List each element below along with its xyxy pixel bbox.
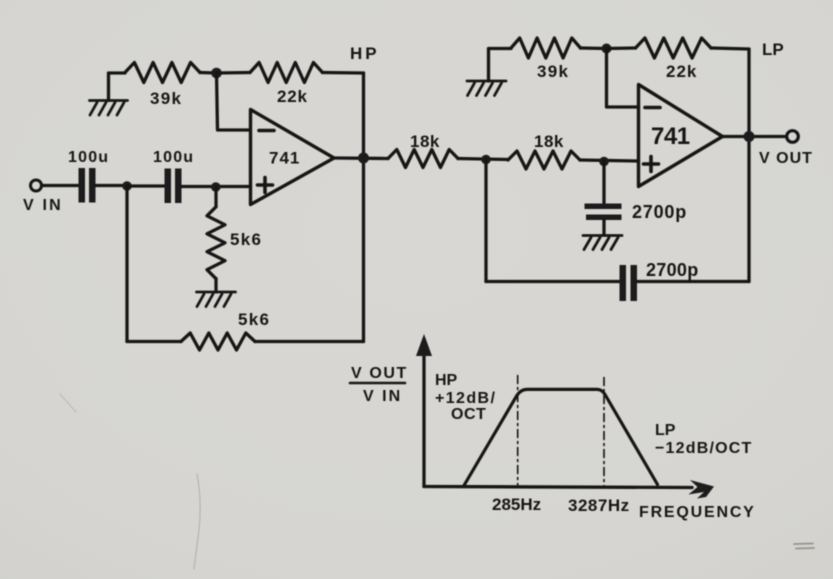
wire U1 output [334, 156, 388, 160]
node D junction (HP output) [358, 153, 369, 164]
label HP (graph) [435, 372, 458, 389]
wire bottom left segment [127, 340, 181, 343]
svg-text:3287Hz: 3287Hz [568, 496, 630, 515]
wire HP output vertical [362, 73, 365, 342]
resistor 22k HP [217, 63, 364, 83]
graph x-axis arrowhead [689, 480, 715, 499]
dashed marker 285Hz [517, 376, 519, 487]
node F junction [599, 157, 609, 167]
svg-text:+12dB/: +12dB/ [435, 390, 496, 407]
ground under C3 [583, 236, 622, 250]
graph x-axis [424, 487, 692, 488]
label FREQUENCY [639, 504, 756, 521]
resistor 39k HP [125, 63, 200, 83]
label 5k6 (feedback) [238, 310, 270, 329]
wire VIN to C1 [42, 184, 79, 187]
svg-text:5k6: 5k6 [230, 230, 262, 249]
capacitor C1 100u [79, 168, 96, 203]
label LP [762, 40, 784, 59]
svg-text:−12dB/OCT: −12dB/OCT [655, 440, 753, 457]
stray faint slash [60, 394, 76, 412]
wire node G to inverting input U2 [607, 49, 639, 108]
label 18k (first) [410, 132, 440, 151]
wire node F down to C3 [602, 162, 605, 204]
resistor 5k6 feedback [181, 333, 255, 350]
svg-text:HP: HP [435, 372, 458, 389]
node C junction (39k/22k HP) [211, 68, 222, 79]
svg-text:OCT: OCT [451, 406, 486, 423]
node A junction [122, 181, 132, 191]
wire bottom right segment [255, 340, 364, 343]
ground LP 39k [467, 81, 506, 96]
svg-text:LP: LP [655, 422, 676, 439]
graph y-axis arrowhead [416, 334, 432, 356]
label 741 (U2) [651, 123, 690, 150]
label -12dB/OCT [655, 440, 753, 457]
resistor 18k second [508, 151, 580, 169]
label OCT [451, 406, 486, 423]
label 100u (C1) [68, 149, 109, 166]
wire node E down to bottom LP feedback [484, 160, 487, 282]
op-amp U1 741 [251, 110, 335, 205]
svg-text:100u: 100u [68, 149, 109, 166]
label 5k6 (vertical resistor) [230, 230, 262, 249]
terminal V OUT [787, 131, 799, 143]
label HP [350, 44, 380, 63]
label 2700p (C3) [632, 202, 687, 222]
svg-text:V IN: V IN [363, 388, 402, 405]
node G junction (39k/22k LP) [602, 44, 612, 54]
label 22k HP [277, 87, 308, 106]
label 2700p (C4) [646, 260, 699, 280]
svg-text:V OUT: V OUT [351, 365, 408, 382]
label 39k LP [537, 62, 569, 81]
wire node C to inverting input [217, 73, 251, 130]
wire U2 output to V OUT [723, 135, 786, 138]
wire C4 to LP output vertical [637, 280, 749, 283]
svg-text:18k: 18k [534, 132, 564, 151]
resistor R 5k6 vertical [207, 187, 225, 292]
resistor 39k LP [511, 38, 581, 58]
stray mark equals bottom right [794, 544, 814, 549]
label 3287Hz [568, 496, 630, 515]
wire node A down to bottom feedback [125, 186, 128, 342]
wire node A to C2 [127, 184, 164, 187]
label 285Hz [492, 495, 541, 514]
graph y-axis [422, 349, 425, 487]
capacitor C2 100u [165, 169, 182, 204]
svg-text:100u: 100u [153, 149, 194, 166]
op-amp U2 741 [639, 85, 723, 187]
svg-text:HP: HP [350, 44, 380, 63]
node B junction [211, 182, 221, 192]
wire C3 to ground [602, 220, 605, 235]
ground under 5k6 [197, 292, 236, 307]
wire bottom to C4 [486, 280, 619, 283]
stray hairline scratch [194, 474, 200, 569]
plus sign U2 [644, 157, 659, 172]
svg-text:V IN: V IN [23, 197, 63, 214]
node E junction [481, 155, 491, 165]
wire 39k to node C [200, 71, 217, 75]
svg-text:V OUT: V OUT [759, 150, 813, 167]
svg-text:2700p: 2700p [632, 202, 687, 222]
svg-text:LP: LP [762, 40, 784, 59]
minus sign U2 [645, 106, 660, 110]
label +12dB/ [435, 390, 496, 407]
svg-text:22k: 22k [277, 87, 308, 106]
resistor 22k LP [607, 38, 750, 58]
terminal V IN [31, 180, 42, 191]
label 18k (second) [534, 132, 564, 151]
svg-text:18k: 18k [410, 132, 440, 151]
label 741 (U1) [269, 149, 300, 168]
wire C1 to node A [96, 184, 128, 187]
fraction bar [350, 382, 405, 385]
label 22k LP [666, 62, 697, 81]
wire LP output vertical [747, 49, 750, 282]
wire 39k to node G [581, 46, 607, 50]
wire 18k to node F and + input [580, 160, 639, 161]
wire 39k LP ground lead [489, 49, 512, 82]
minus sign U1 [259, 129, 274, 133]
svg-text:2700p: 2700p [646, 260, 699, 280]
svg-text:5k6: 5k6 [238, 310, 270, 329]
plus sign U1 [258, 178, 273, 193]
label V OUT [759, 150, 813, 167]
capacitor C3 2700p (to ground) [585, 204, 622, 221]
svg-text:39k: 39k [150, 89, 182, 108]
label 39k HP [150, 89, 182, 108]
response curve [463, 389, 657, 486]
wire C2 to node B and op-amp + input [182, 185, 251, 188]
dashed marker 3287Hz [603, 378, 605, 487]
svg-text:285Hz: 285Hz [492, 495, 541, 514]
svg-text:741: 741 [651, 123, 690, 150]
svg-text:39k: 39k [537, 62, 569, 81]
label fraction V IN [363, 388, 402, 405]
svg-text:22k: 22k [666, 62, 697, 81]
label V IN [23, 197, 63, 214]
svg-text:741: 741 [269, 149, 300, 168]
resistor 18k first [388, 150, 458, 168]
label fraction V OUT [351, 365, 408, 382]
wire 18k to node E [458, 159, 508, 160]
capacitor C4 2700p (feedback) [620, 265, 638, 301]
svg-text:FREQUENCY: FREQUENCY [639, 504, 756, 521]
wire 39k HP ground lead [109, 73, 126, 101]
node H junction (LP output) [744, 131, 755, 142]
label 100u (C2) [153, 149, 194, 166]
label LP (graph) [655, 422, 676, 439]
ground HP 39k [90, 101, 128, 116]
